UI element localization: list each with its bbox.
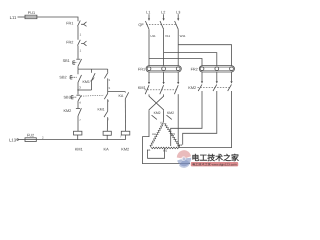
wire branch to FR2 pole1 xyxy=(149,59,202,66)
wire crossing X xyxy=(149,94,164,110)
fuse FU1 xyxy=(25,15,37,19)
svg-text:L11: L11 xyxy=(10,15,17,20)
leader tick left xyxy=(152,115,157,119)
svg-text:电工技术之家 www.dgjs123.com: 电工技术之家 www.dgjs123.com xyxy=(192,163,237,167)
watermark url xyxy=(191,162,238,166)
svg-text:KM1: KM1 xyxy=(83,80,90,84)
wire to junction xyxy=(77,66,79,69)
contact SB3-linked NO xyxy=(104,94,107,100)
delta winding (autotransformer) xyxy=(150,124,180,149)
wire W11 xyxy=(177,29,179,65)
svg-text:5: 5 xyxy=(109,78,111,82)
svg-text:KM2: KM2 xyxy=(121,147,129,151)
wire self-hold bottom xyxy=(78,89,92,91)
fuse FU2 xyxy=(25,138,36,142)
svg-text:KM2: KM2 xyxy=(154,111,161,115)
watermark logo swirl xyxy=(177,150,191,168)
svg-text:KM2: KM2 xyxy=(188,86,196,90)
svg-text:KM1: KM1 xyxy=(138,86,146,90)
coil KA xyxy=(103,131,111,135)
svg-text:4: 4 xyxy=(79,101,81,105)
wire KM1 pole2 to apex xyxy=(163,111,165,123)
coil KM2 xyxy=(121,131,130,135)
svg-text:KM2: KM2 xyxy=(167,111,174,115)
wire L1 to FU2 xyxy=(18,139,25,141)
svg-text:3: 3 xyxy=(79,86,81,90)
svg-text:KA: KA xyxy=(119,94,124,98)
wire KM1 pole1 to frame xyxy=(143,111,191,164)
svg-text:KM1: KM1 xyxy=(98,108,105,112)
wire top rail to main line xyxy=(37,17,78,21)
svg-text:W11: W11 xyxy=(180,34,186,38)
svg-text:FR2: FR2 xyxy=(66,41,73,45)
svg-text:1: 1 xyxy=(80,49,82,53)
wire KM2 pole1 xyxy=(171,91,202,146)
wire KM2 pole3 xyxy=(178,91,231,148)
svg-text:L3: L3 xyxy=(176,10,180,14)
svg-text:L13: L13 xyxy=(9,138,17,143)
svg-text:KA: KA xyxy=(104,147,110,151)
svg-text:KM1: KM1 xyxy=(75,147,83,151)
svg-text:2: 2 xyxy=(42,135,44,139)
wire xyxy=(77,101,79,109)
svg-text:FU2: FU2 xyxy=(27,133,34,137)
wire V11 xyxy=(163,29,165,65)
svg-text:QF: QF xyxy=(138,23,144,27)
svg-text:V1: V1 xyxy=(160,122,164,125)
coil KM1 xyxy=(74,131,82,135)
svg-text:W1: W1 xyxy=(178,143,183,147)
svg-text:FR2: FR2 xyxy=(191,68,198,72)
branch A vertical xyxy=(104,69,108,93)
svg-text:5: 5 xyxy=(109,86,111,90)
wire xyxy=(77,46,79,59)
svg-text:KM2: KM2 xyxy=(63,109,71,113)
svg-text:L1: L1 xyxy=(146,10,150,14)
svg-text:FR1: FR1 xyxy=(138,68,145,72)
wire U11 xyxy=(148,29,150,65)
wire xyxy=(77,82,79,94)
svg-text:FR1: FR1 xyxy=(66,22,73,26)
contact KA NO (branch B) xyxy=(125,92,128,99)
svg-text:U2: U2 xyxy=(152,132,156,136)
svg-text:V2: V2 xyxy=(172,132,176,136)
svg-text:U11: U11 xyxy=(150,34,156,38)
svg-text:7: 7 xyxy=(107,118,109,122)
svg-text:L2: L2 xyxy=(161,10,165,14)
wire branch to FR2 pole2 xyxy=(164,53,217,66)
wire delta bottom tap xyxy=(148,148,165,158)
svg-text:SB2: SB2 xyxy=(59,75,66,79)
svg-text:7: 7 xyxy=(79,118,81,122)
wire xyxy=(77,26,79,40)
svg-text:1: 1 xyxy=(80,32,82,36)
svg-text:SB1: SB1 xyxy=(63,59,70,63)
leader tick right xyxy=(167,115,172,119)
junction rail xyxy=(78,68,108,70)
branch B xyxy=(125,92,128,132)
svg-text:V11: V11 xyxy=(165,34,170,38)
wire xyxy=(77,116,79,131)
wire KM2 pole2 xyxy=(183,91,217,145)
svg-text:W2: W2 xyxy=(163,149,168,153)
feeder to branch B xyxy=(108,91,126,93)
svg-text:电工技术之家: 电工技术之家 xyxy=(192,153,239,162)
contact KA NO (upper) xyxy=(104,72,108,78)
svg-text:FU1: FU1 xyxy=(28,11,35,15)
linkage dashes SB3 xyxy=(81,95,104,96)
svg-text:SB3: SB3 xyxy=(64,95,71,99)
wire KM1 pole3 to delta right corner xyxy=(177,94,179,147)
bottom rail xyxy=(36,139,125,141)
wire L11 to FU1 xyxy=(18,16,26,18)
wire branch to FR2 pole3 xyxy=(178,45,231,66)
